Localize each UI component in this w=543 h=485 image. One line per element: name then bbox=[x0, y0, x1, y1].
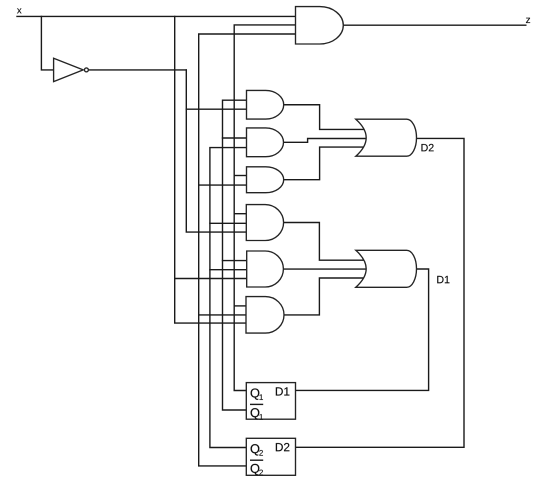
wire AND1 to OR2 bbox=[284, 105, 365, 130]
wire AND3 to OR2 bbox=[284, 147, 364, 180]
label D1 (OR O1 output) bbox=[437, 276, 449, 283]
wire x rail to AND6 bbox=[175, 16, 247, 323]
label FF1 Q1bar subscript bbox=[260, 414, 263, 420]
label FF1 Q1 bbox=[251, 388, 260, 399]
or-gate O1 (D1) bbox=[356, 250, 417, 287]
wire inverter output bbox=[89, 69, 186, 71]
and-gate A3 bbox=[247, 167, 284, 193]
and-gate A1 bbox=[247, 90, 284, 119]
and-gate A2 bbox=[247, 128, 284, 157]
label FF2 Q2 subscript bbox=[259, 450, 263, 456]
wire Q1 rail bbox=[234, 25, 295, 391]
wire Q2bar tap to AND6 bbox=[199, 314, 247, 316]
label z (output) bbox=[526, 18, 530, 23]
label FF1 Q1bar overline bbox=[250, 403, 263, 405]
wire Q1bar tap to AND2 bbox=[223, 137, 247, 139]
wire Q2bar tap to AND3 bbox=[199, 184, 247, 186]
wire AND5 to OR1 bbox=[283, 268, 366, 270]
wire z output bbox=[343, 24, 526, 26]
wire Q2 tap to AND5 bbox=[210, 269, 247, 271]
wire Q1 tap to AND3 bbox=[234, 175, 246, 177]
label FF1 D1 bbox=[276, 387, 290, 395]
wire Q2 tap to AND4 bbox=[210, 222, 247, 224]
wire AND2 to OR2 bbox=[283, 139, 366, 143]
label FF1 Q1 subscript bbox=[260, 394, 263, 400]
label D2 (OR O2 output) bbox=[421, 144, 433, 151]
wire AND6 to OR1 bbox=[284, 278, 363, 315]
wire Q1 tap to AND6 bbox=[234, 305, 246, 307]
wire xbar tap to AND1 bbox=[186, 108, 246, 110]
wire Q2bar rail bbox=[199, 34, 296, 466]
wire OR1 output to FF1 D bbox=[296, 269, 429, 390]
label FF2 Q2bar bbox=[251, 464, 260, 475]
and-gate A6 bbox=[246, 297, 284, 334]
wire inverter feed bbox=[41, 16, 53, 70]
label FF2 Q2bar subscript bbox=[259, 470, 263, 476]
wire Q1bar tap to AND5 bbox=[223, 260, 248, 262]
wire Q2 rail bbox=[210, 148, 247, 448]
and-gate A5 bbox=[247, 251, 284, 287]
label FF2 D2 bbox=[276, 443, 290, 451]
wire OR2 output to FF2 D bbox=[296, 138, 465, 447]
wire x input bus bbox=[17, 15, 296, 17]
wire Q1bar rail bbox=[223, 100, 247, 410]
wire xbar rail to AND4 bbox=[186, 70, 246, 232]
flip-flop FF2 (D2) bbox=[246, 438, 295, 475]
label x (input) bbox=[17, 8, 22, 13]
and-gate A4 bbox=[246, 205, 283, 241]
flip-flop FF1 (D1) bbox=[246, 383, 295, 420]
label FF2 Q2 bbox=[251, 444, 260, 455]
wire Q1 tap to AND4 bbox=[234, 213, 246, 215]
and-gate A7 top (z) bbox=[296, 7, 344, 44]
wire x tap to AND5 bbox=[175, 278, 247, 280]
label FF1 Q1bar bbox=[251, 408, 260, 419]
or-gate O2 (D2) bbox=[356, 119, 417, 156]
inverter U1 bbox=[54, 58, 89, 81]
label FF2 Q2bar overline bbox=[250, 459, 263, 461]
wire AND4 to OR1 bbox=[284, 223, 365, 261]
